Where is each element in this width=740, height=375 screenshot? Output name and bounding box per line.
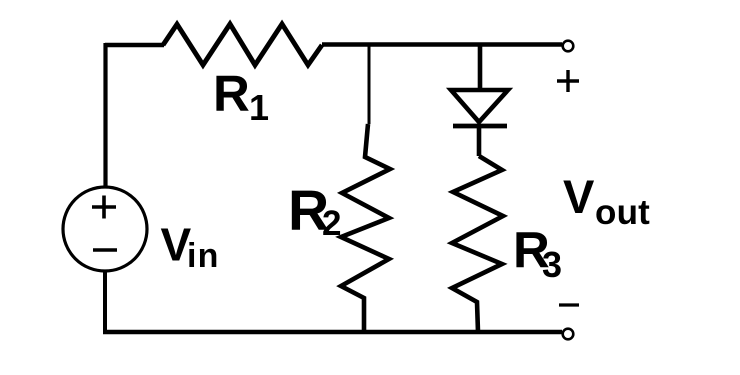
svg-text:R: R [213,65,250,122]
resistor R2 [341,124,390,332]
voltage source V_in [63,187,147,271]
wire diode top lead [478,43,483,90]
svg-text:V: V [563,170,595,223]
wire top-right horizontal [322,42,562,47]
wire bottom horizontal [103,330,562,335]
diode D1 [451,90,508,122]
wire R2 top lead [368,45,371,124]
svg-text:1: 1 [249,87,269,128]
svg-text:out: out [595,193,650,232]
resistor R1 [163,24,322,65]
plus sign output [557,70,579,92]
svg-text:2: 2 [322,204,341,243]
terminal bottom-right [563,329,574,340]
wire below source [103,272,107,332]
minus sign inside source [93,248,117,252]
minus sign output [559,303,579,306]
wire diode to R3 [477,126,482,156]
resistor R3 [452,156,503,332]
wire left vertical [103,43,107,187]
svg-text:in: in [187,237,220,275]
wire top-left horizontal [105,43,164,48]
svg-text:3: 3 [542,244,562,285]
plus sign inside source [92,196,116,219]
terminal top-right [563,41,574,52]
diode cathode bar [453,124,507,129]
